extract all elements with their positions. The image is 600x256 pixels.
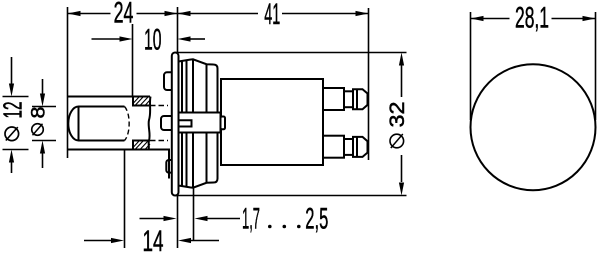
dimension dia8 text [29, 107, 50, 136]
svg-text:14: 14 [143, 225, 164, 256]
dimension dia32 text [386, 102, 409, 149]
dimension 24 line [68, 13, 178, 15]
dimension 24 arrow left [68, 11, 81, 16]
dimension 41 arrow right [356, 11, 369, 16]
slider bar slot [179, 120, 192, 126]
svg-text:32: 32 [386, 102, 409, 128]
svg-text:2,5: 2,5 [305, 202, 328, 235]
dimension dia8 line top arrow [42, 79, 44, 94]
dimension dia32 line top arrow [401, 65, 403, 97]
svg-text:41: 41 [264, 0, 280, 31]
terminal bottom tip inner line [356, 137, 358, 157]
button plunger cap (side view) [68, 107, 124, 141]
extension line terminal tip [368, 8, 370, 160]
terminal top neck [344, 91, 353, 107]
extension stub dia8 bottom [32, 140, 56, 142]
dimension 10 right arrow [190, 38, 205, 40]
terminal bottom tip [353, 137, 368, 157]
sleeve outer bottom line [68, 150, 170, 179]
dimension dia8 line bottom arrow [42, 153, 44, 168]
extension line circle left [470, 12, 472, 120]
extension line flange bottom horizontal [176, 195, 407, 197]
terminal top tip inner line [356, 89, 358, 109]
svg-text:1,7: 1,7 [242, 202, 260, 235]
extension stub dia8 top [32, 106, 56, 108]
hidden plunger end arc (dashed) [125, 107, 130, 141]
dimension 41 line [178, 13, 369, 15]
dimension 14 left arrow [84, 240, 112, 242]
extension line circle right [595, 12, 597, 120]
hidden bore line top (dashed) [133, 105, 168, 107]
svg-text:28,1: 28,1 [515, 2, 549, 35]
extension stub dia12 bottom [3, 149, 29, 151]
retaining clip middle [161, 116, 172, 130]
dimension dia32 line bottom arrow [401, 155, 403, 182]
extension line flange plane (bottom) [177, 196, 179, 249]
bushing top wall (section) [133, 97, 149, 106]
rib line 1 [181, 61, 183, 186]
dimension dia12 line bottom arrow [11, 162, 13, 173]
front view button circle [471, 64, 596, 190]
dimension 1,7...2,5 left arrow [140, 218, 165, 220]
ribbed cap silhouette [179, 59, 218, 187]
slider bar [179, 113, 221, 133]
dimension 28,1 arrow right [583, 16, 596, 21]
terminal top collar [323, 88, 344, 110]
dimension 28,1 line [471, 18, 596, 20]
extension line button tip [67, 7, 69, 158]
terminal bottom collar [323, 136, 344, 158]
svg-text:8: 8 [29, 107, 50, 119]
rib line 2 [186, 60, 188, 186]
rib line 3 [192, 59, 194, 187]
hatch bottom wall [133, 141, 150, 150]
dimension 28,1 arrow left [471, 16, 484, 21]
dimension 24 arrow right [165, 11, 178, 16]
retaining clip bottom [166, 160, 172, 173]
svg-text:24: 24 [114, 0, 134, 30]
hidden bore line bottom (dashed) [133, 140, 168, 142]
dimension 1,7...2,5 right arrow [207, 218, 241, 220]
rear housing [221, 79, 323, 165]
extension line flange top [177, 7, 179, 52]
rib line 4 [206, 64, 208, 183]
terminal bottom neck [344, 139, 353, 155]
hatch top wall [133, 97, 151, 106]
dimension dia12 text [0, 102, 28, 141]
svg-text:10: 10 [144, 23, 162, 56]
dimension 14 right arrow [190, 240, 219, 242]
dimension 41 arrow left [178, 11, 191, 16]
dimension 10 left arrow [92, 38, 121, 40]
extension line bushing front [132, 24, 134, 97]
wavy break line of bushing [149, 97, 151, 150]
terminal top tip [353, 89, 368, 109]
sleeve outer top line [68, 96, 151, 98]
extension stub dia12 top [3, 96, 29, 98]
bushing bottom wall (section) [133, 141, 149, 150]
dots [268, 225, 272, 229]
mounting flange [172, 53, 179, 196]
svg-text:12: 12 [0, 102, 28, 119]
slider bar end cap [221, 117, 226, 130]
retaining clip top [164, 72, 172, 90]
extension line plunger end [124, 150, 126, 248]
extension line clamp face [193, 188, 195, 240]
dimension dia12 line top arrow [11, 57, 13, 84]
extension line flange top horizontal [176, 52, 407, 54]
